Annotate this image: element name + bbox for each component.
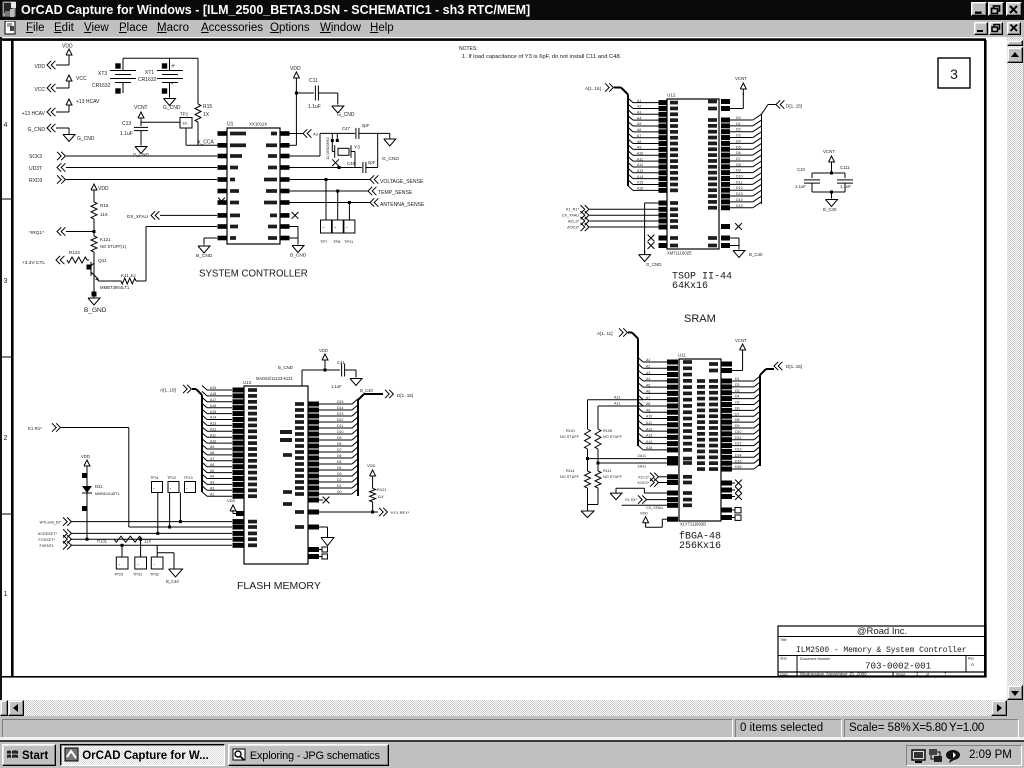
svg-text:+3.3V CTL: +3.3V CTL	[22, 260, 45, 266]
svg-text:B_CND: B_CND	[290, 253, 307, 259]
svg-text:A15: A15	[637, 181, 643, 185]
svg-text:4: 4	[4, 122, 8, 129]
svg-text:TP23: TP23	[114, 573, 123, 577]
svg-text:R123: R123	[69, 250, 80, 255]
svg-text:VDD: VDD	[290, 66, 301, 72]
svg-text:C10: C10	[797, 167, 805, 172]
svg-text:C111: C111	[840, 165, 850, 170]
svg-text:1.1uF: 1.1uF	[331, 384, 342, 389]
svg-text:D13: D13	[735, 448, 741, 452]
svg-text:TEMP_SENSE: TEMP_SENSE	[378, 190, 413, 196]
svg-text:UD3T: UD3T	[29, 166, 42, 172]
svg-text:DX_XFAU: DX_XFAU	[127, 214, 148, 219]
svg-text:A11: A11	[614, 402, 620, 406]
svg-text:A11: A11	[614, 395, 620, 399]
svg-text:K121: K121	[100, 237, 111, 242]
svg-text:A13: A13	[210, 422, 216, 426]
svg-text:TP1: TP1	[180, 112, 189, 117]
svg-text:1: 1	[4, 591, 8, 598]
svg-text:D0: D0	[736, 116, 741, 120]
svg-text:D31: D31	[95, 484, 103, 489]
svg-text:XLY7111602B: XLY7111602B	[680, 522, 706, 527]
svg-text:VCNT: VCNT	[735, 338, 747, 343]
svg-text:A18: A18	[210, 392, 216, 396]
svg-text:D14: D14	[736, 198, 743, 202]
svg-text:A: A	[971, 662, 975, 667]
svg-text:D4: D4	[337, 466, 342, 470]
svg-text:D11: D11	[337, 424, 343, 428]
svg-text:D13: D13	[337, 412, 343, 416]
svg-text:A12: A12	[646, 427, 652, 431]
svg-text:R15: R15	[203, 104, 212, 110]
svg-text:A10: A10	[646, 415, 652, 419]
svg-text:3: 3	[950, 66, 958, 82]
svg-text:A[1..11]: A[1..11]	[597, 331, 613, 336]
svg-text:A4: A4	[210, 475, 214, 479]
svg-text:A3: A3	[637, 111, 641, 115]
svg-text:B_C40: B_C40	[823, 207, 837, 212]
svg-text:KY1 REY*: KY1 REY*	[391, 510, 410, 515]
svg-text:+13 HCAV: +13 HCAV	[76, 99, 100, 105]
svg-text:Sheet: Sheet	[896, 673, 905, 677]
svg-text:G_CND: G_CND	[163, 105, 181, 111]
svg-text:D15: D15	[736, 204, 743, 208]
svg-text:MAD52/11133-6121: MAD52/11133-6121	[256, 376, 294, 381]
svg-text:-: -	[334, 225, 336, 231]
svg-text:D7: D7	[337, 448, 342, 452]
svg-text:A7: A7	[637, 134, 641, 138]
svg-text:A2: A2	[210, 487, 214, 491]
svg-text:D10: D10	[736, 175, 743, 179]
svg-text:A15: A15	[646, 446, 652, 450]
svg-text:TP11: TP11	[344, 239, 354, 244]
svg-text:K11 1U: K11 1U	[121, 273, 136, 278]
svg-text:A14: A14	[210, 416, 216, 420]
svg-text:CR1632: CR1632	[138, 77, 157, 83]
svg-text:A16: A16	[637, 187, 643, 191]
svg-text:VDD: VDD	[62, 44, 73, 50]
svg-text:11X: 11X	[144, 539, 151, 544]
svg-text:+13 HCAV: +13 HCAV	[22, 111, 46, 117]
svg-text:D12: D12	[337, 418, 343, 422]
svg-text:D6: D6	[337, 454, 342, 458]
svg-text:D12: D12	[735, 442, 741, 446]
svg-text:B_C40: B_C40	[166, 579, 179, 584]
svg-text:D8: D8	[337, 442, 342, 446]
svg-text:Q11: Q11	[98, 258, 107, 264]
svg-text:C13: C13	[122, 121, 131, 127]
svg-text:R111: R111	[603, 469, 612, 473]
svg-text:VDD: VDD	[640, 512, 648, 516]
svg-text:ZA11: ZA11	[637, 465, 646, 469]
svg-text:A1: A1	[646, 358, 650, 362]
svg-text:1X: 1X	[203, 112, 210, 118]
svg-text:A8: A8	[637, 140, 641, 144]
svg-text:A10: A10	[637, 151, 643, 155]
svg-text:ANTENNA_SENSE: ANTENNA_SENSE	[380, 202, 425, 208]
svg-text:A9: A9	[646, 408, 650, 412]
svg-text:-: -	[346, 225, 348, 231]
svg-text:A1: A1	[210, 492, 214, 496]
svg-text:A8: A8	[646, 402, 650, 406]
svg-text:D8: D8	[735, 418, 740, 422]
svg-text:D[1..15]: D[1..15]	[786, 103, 802, 108]
svg-text:D1: D1	[735, 377, 740, 381]
svg-text:VDD: VDD	[34, 64, 45, 70]
svg-text:D15: D15	[337, 400, 343, 404]
svg-text:D2: D2	[736, 128, 741, 132]
svg-text:D13: D13	[736, 192, 743, 196]
svg-text:A[1..16]: A[1..16]	[585, 86, 601, 91]
svg-text:C11: C11	[309, 78, 318, 84]
svg-text:*IRQ1*: *IRQ1*	[29, 230, 44, 236]
svg-text:D5: D5	[736, 145, 741, 149]
svg-text:U12: U12	[667, 93, 676, 98]
svg-text:U11: U11	[678, 353, 686, 358]
svg-text:A14: A14	[637, 175, 643, 179]
svg-text:C41: C41	[337, 360, 345, 365]
svg-text:RXD3: RXD3	[29, 178, 43, 184]
svg-text:XT1: XT1	[145, 70, 154, 76]
svg-text:K1_R1*: K1_R1*	[566, 208, 580, 212]
svg-text:TP31: TP31	[133, 573, 142, 577]
svg-text:A8: A8	[210, 451, 214, 455]
svg-text:0pF: 0pF	[362, 123, 370, 128]
svg-text:D5: D5	[735, 401, 740, 405]
svg-text:VDD: VDD	[81, 454, 90, 459]
svg-text:R131: R131	[97, 539, 108, 544]
svg-text:ACL3*: ACL3*	[568, 219, 579, 223]
svg-text:VDD: VDD	[319, 348, 328, 353]
svg-text:A17: A17	[210, 398, 216, 402]
svg-text:B_C40: B_C40	[749, 252, 763, 257]
svg-text:D3: D3	[735, 389, 740, 393]
svg-text:U13: U13	[243, 380, 252, 385]
svg-text:A16: A16	[210, 404, 216, 408]
svg-text:K1 R1*: K1 R1*	[625, 498, 637, 502]
svg-text:D[1..15]: D[1..15]	[397, 393, 413, 398]
svg-text:VCNT: VCNT	[735, 76, 747, 81]
svg-text:A6: A6	[210, 463, 214, 467]
svg-text:D4: D4	[735, 395, 740, 399]
svg-text:-: -	[153, 486, 155, 492]
svg-text:C47: C47	[342, 126, 350, 131]
svg-text:SCK3: SCK3	[29, 154, 42, 160]
svg-text:VCNT: VCNT	[134, 105, 148, 111]
svg-text:MMBT3904LT1: MMBT3904LT1	[100, 285, 130, 290]
svg-text:11X: 11X	[100, 212, 108, 217]
svg-text:G_CND: G_CND	[382, 156, 399, 162]
svg-text:FVENTL: FVENTL	[39, 544, 54, 548]
svg-text:A5: A5	[637, 122, 641, 126]
svg-text:703-0002-001: 703-0002-001	[865, 661, 932, 672]
svg-text:VCC: VCC	[34, 87, 45, 93]
svg-text:R111: R111	[566, 469, 575, 473]
svg-text:B_C40: B_C40	[360, 388, 373, 393]
svg-text:SYSTEM CONTROLLER: SYSTEM CONTROLLER	[199, 269, 308, 280]
svg-text:D3: D3	[736, 134, 741, 138]
svg-text:A3: A3	[313, 132, 319, 137]
svg-text:1.1uF: 1.1uF	[120, 131, 133, 137]
svg-text:256Kx16: 256Kx16	[679, 541, 721, 552]
svg-text:MMBD4148T1: MMBD4148T1	[95, 492, 119, 496]
svg-text:of: of	[926, 673, 929, 677]
svg-text:D0: D0	[337, 490, 342, 494]
svg-text:D9: D9	[736, 169, 741, 173]
svg-text:11X: 11X	[377, 494, 384, 499]
svg-text:A5: A5	[210, 469, 214, 473]
svg-text:A9: A9	[637, 146, 641, 150]
svg-text:K1 R1*: K1 R1*	[28, 426, 42, 431]
svg-text:k_CCA: k_CCA	[198, 140, 215, 146]
svg-text:D10: D10	[735, 430, 741, 434]
svg-text:3: 3	[4, 278, 8, 285]
svg-text:-: -	[170, 486, 172, 492]
svg-text:CX_XFAU: CX_XFAU	[646, 506, 663, 510]
svg-text:TP11: TP11	[150, 476, 159, 480]
svg-text:D15: D15	[735, 459, 741, 463]
svg-text:TP7: TP7	[320, 239, 328, 244]
svg-text:A19: A19	[210, 386, 216, 390]
svg-text:ILM2500 - Memory & System Cont: ILM2500 - Memory & System Controller	[796, 646, 967, 655]
svg-text:D4: D4	[736, 139, 741, 143]
svg-text:TP13: TP13	[184, 476, 193, 480]
svg-text:G_CND: G_CND	[337, 112, 355, 118]
svg-text:NOTES:: NOTES:	[459, 46, 478, 52]
svg-text:A3: A3	[210, 481, 214, 485]
svg-text:XT3: XT3	[98, 71, 107, 77]
svg-text:D7: D7	[735, 412, 740, 416]
svg-text:A7: A7	[210, 457, 214, 461]
svg-text:D1: D1	[337, 484, 342, 488]
svg-text:NO STUFF: NO STUFF	[603, 435, 623, 439]
svg-text:KCL2*: KCL2*	[638, 476, 649, 480]
svg-text:VCC: VCC	[76, 76, 87, 82]
svg-text:R106: R106	[603, 429, 612, 433]
svg-text:VDD: VDD	[367, 463, 376, 468]
svg-text:D5: D5	[337, 460, 342, 464]
svg-text:U1: U1	[227, 122, 234, 128]
svg-text:1.1uF: 1.1uF	[840, 184, 851, 189]
svg-text:A13: A13	[646, 434, 652, 438]
svg-text:D11: D11	[736, 180, 742, 184]
svg-text:0pF: 0pF	[368, 160, 376, 165]
svg-text:G_CND: G_CND	[77, 136, 95, 142]
svg-text:XX1011X: XX1011X	[249, 122, 267, 127]
svg-text:D2: D2	[735, 383, 740, 387]
svg-text:ZA11: ZA11	[637, 454, 646, 458]
svg-text:D9: D9	[735, 424, 740, 428]
svg-text:B_GND: B_GND	[84, 307, 107, 314]
svg-text:2: 2	[4, 435, 8, 442]
svg-text:A12: A12	[210, 428, 216, 432]
svg-text:D7: D7	[736, 157, 741, 161]
svg-text:WTLanti_DI*: WTLanti_DI*	[39, 520, 61, 524]
svg-text:A4: A4	[646, 377, 650, 381]
svg-text:64Kx16: 64Kx16	[672, 281, 708, 292]
svg-text:D6: D6	[736, 151, 741, 155]
svg-text:A9: A9	[210, 445, 214, 449]
svg-text:-: -	[154, 562, 156, 568]
svg-text:A12: A12	[637, 163, 643, 167]
svg-text:@Road Inc.: @Road Inc.	[857, 626, 907, 637]
svg-text:R121: R121	[377, 487, 387, 492]
svg-text:A[1..19]: A[1..19]	[160, 388, 176, 393]
svg-text:B_CND: B_CND	[278, 365, 293, 370]
svg-text:G_CND: G_CND	[27, 127, 45, 133]
svg-text:VCNT: VCNT	[823, 149, 835, 154]
svg-text:Wednesday, November 15, 2000: Wednesday, November 15, 2000	[800, 672, 867, 677]
svg-text:TP12: TP12	[167, 476, 176, 480]
svg-text:FLASH MEMORY: FLASH MEMORY	[237, 580, 321, 592]
svg-text:A6: A6	[637, 128, 641, 132]
svg-text:A11: A11	[646, 421, 652, 425]
svg-text:XM7111602E: XM7111602E	[667, 251, 692, 256]
svg-text:CX_XFAU: CX_XFAU	[562, 214, 580, 218]
svg-text:A2: A2	[637, 105, 641, 109]
svg-text:VDD: VDD	[227, 498, 236, 503]
svg-text:1.1uF: 1.1uF	[308, 104, 321, 110]
svg-text:NO STUFF: NO STUFF	[560, 435, 580, 439]
svg-text:R16: R16	[100, 203, 109, 208]
svg-text:TP-: TP-	[182, 121, 189, 126]
svg-text:A4: A4	[637, 116, 641, 120]
svg-text:A13: A13	[637, 169, 643, 173]
svg-text:SRAM: SRAM	[684, 313, 716, 325]
svg-text:D15: D15	[735, 465, 741, 469]
svg-text:1.1uF: 1.1uF	[795, 184, 806, 189]
svg-text:+: +	[171, 63, 175, 70]
svg-text:A3: A3	[646, 371, 650, 375]
svg-text:A5: A5	[646, 383, 650, 387]
svg-text:D[1..15]: D[1..15]	[786, 364, 802, 369]
svg-text:VDD: VDD	[98, 186, 109, 192]
svg-text:CR1632: CR1632	[92, 83, 111, 89]
svg-text:-: -	[137, 562, 139, 568]
svg-text:A10: A10	[210, 439, 216, 443]
svg-text:Rev: Rev	[968, 657, 974, 661]
svg-text:Title: Title	[780, 638, 787, 642]
svg-text:Document Number: Document Number	[800, 657, 831, 661]
svg-text:D3: D3	[337, 472, 342, 476]
svg-text:D1: D1	[736, 122, 741, 126]
svg-text:A11: A11	[637, 157, 643, 161]
svg-text:D2: D2	[337, 478, 342, 482]
svg-text:G_CND: G_CND	[646, 262, 661, 267]
svg-text:D12: D12	[736, 186, 743, 190]
svg-text:NO STUFF: NO STUFF	[560, 475, 580, 479]
svg-text:NO STUFF(1): NO STUFF(1)	[100, 244, 127, 249]
svg-text:D14: D14	[337, 406, 343, 410]
svg-text:TP8: TP8	[333, 239, 341, 244]
svg-text:D14: D14	[735, 453, 741, 457]
svg-text:Size: Size	[780, 657, 787, 661]
svg-text:-: -	[119, 562, 121, 568]
svg-text:B_CND: B_CND	[196, 253, 213, 259]
svg-text:D11: D11	[735, 436, 741, 440]
svg-text:A14: A14	[646, 440, 652, 444]
svg-text:-: -	[186, 486, 188, 492]
svg-text:C48: C48	[347, 161, 355, 166]
svg-text:A6: A6	[646, 390, 650, 394]
svg-text:A15: A15	[210, 410, 216, 414]
svg-text:Y3: Y3	[354, 145, 360, 151]
svg-text:TP32: TP32	[150, 573, 159, 577]
svg-text:1. If load capacitance of Y3 i: 1. If load capacitance of Y3 is 6pF, do …	[462, 54, 622, 60]
svg-text:11.0592MHZ: 11.0592MHZ	[325, 137, 330, 160]
svg-text:A2: A2	[646, 364, 650, 368]
svg-text:Date:: Date:	[780, 673, 789, 677]
svg-text:D9: D9	[337, 436, 342, 440]
svg-text:KOC2*: KOC2*	[638, 481, 650, 485]
svg-text:D10: D10	[337, 430, 343, 434]
svg-text:D6: D6	[735, 406, 740, 410]
svg-text:A1: A1	[637, 99, 641, 103]
svg-text:A7: A7	[646, 396, 650, 400]
svg-text:D8: D8	[736, 163, 741, 167]
svg-text:AOC3*: AOC3*	[567, 225, 579, 229]
svg-text:VOLTAGE_SENSE: VOLTAGE_SENSE	[380, 179, 424, 185]
svg-text:NO STUFF: NO STUFF	[603, 475, 623, 479]
svg-text:FCEXET*: FCEXET*	[39, 538, 56, 542]
svg-text:A11: A11	[210, 433, 216, 437]
svg-text:-: -	[323, 225, 325, 231]
svg-text:R101: R101	[566, 429, 575, 433]
svg-text:ACEESET*: ACEESET*	[38, 532, 58, 536]
